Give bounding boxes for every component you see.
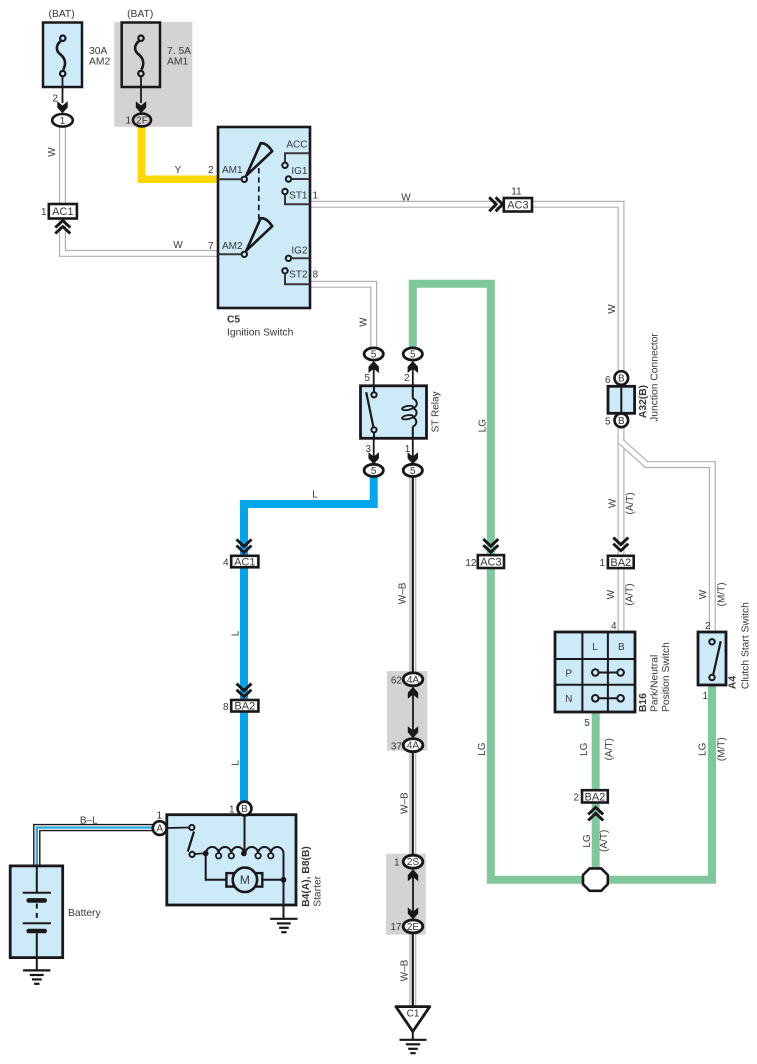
connector 4A pin37 xyxy=(391,726,423,752)
connector AC1 pin4 (blue) xyxy=(223,539,258,568)
wire from fuse AM2 to connector oval 1 xyxy=(52,76,67,113)
svg-text:W–B: W–B xyxy=(400,792,411,814)
starter solenoid coil 1 xyxy=(203,847,244,858)
battery xyxy=(10,866,101,958)
svg-text:4: 4 xyxy=(223,558,229,569)
connector oval 2F pin1 xyxy=(125,114,151,127)
svg-text:W: W xyxy=(608,498,619,508)
svg-text:62: 62 xyxy=(391,676,403,687)
connector 2E pin17 xyxy=(390,907,422,933)
svg-text:B: B xyxy=(618,374,625,385)
svg-text:A32(B): A32(B) xyxy=(638,385,649,418)
arrow down from relay pin3 xyxy=(365,438,378,464)
connector 2S pin1 xyxy=(394,855,423,914)
pin 2 AM1 xyxy=(208,165,247,182)
wire W-B from connector 4A to connector 2S xyxy=(409,745,416,861)
fuse AM1 7.5A xyxy=(122,9,191,87)
connector BA2 pin1 (A/T) xyxy=(599,538,633,569)
svg-text:AC3: AC3 xyxy=(507,200,528,212)
svg-text:LG: LG xyxy=(478,419,489,433)
svg-text:LG: LG xyxy=(698,742,709,756)
svg-text:(BAT): (BAT) xyxy=(49,9,75,20)
arrow down from relay pin1 xyxy=(405,438,418,464)
svg-text:B: B xyxy=(241,804,248,815)
ground below starter xyxy=(270,919,297,932)
svg-text:B: B xyxy=(618,642,625,653)
svg-text:B4(A), B8(B): B4(A), B8(B) xyxy=(301,846,312,907)
svg-text:L: L xyxy=(592,642,598,653)
svg-text:4: 4 xyxy=(611,621,617,632)
ST relay connector oval 5 (pin5) xyxy=(364,348,383,361)
label C5 Ignition Switch xyxy=(227,315,294,339)
svg-text:ST Relay: ST Relay xyxy=(430,391,441,432)
svg-text:2: 2 xyxy=(404,373,410,384)
labels LG (A/T) upper xyxy=(579,738,615,760)
svg-text:W: W xyxy=(47,147,58,157)
svg-text:2: 2 xyxy=(208,165,214,176)
svg-text:5: 5 xyxy=(371,350,377,361)
svg-text:1: 1 xyxy=(156,811,162,822)
svg-text:7: 7 xyxy=(208,241,214,252)
svg-text:AM1: AM1 xyxy=(167,57,188,68)
wire W-B from ST relay pin1 to connector 4A xyxy=(409,470,416,679)
svg-text:W–B: W–B xyxy=(397,582,408,604)
starter motor M xyxy=(226,868,262,892)
wire from fuse AM1 to connector oval 2F xyxy=(136,76,146,113)
svg-text:(A/T): (A/T) xyxy=(624,583,635,605)
svg-text:12: 12 xyxy=(465,558,477,569)
wire Y from fuse AM1 to ignition switch AM1 xyxy=(142,124,219,179)
ST relay connector oval 5 (pin1) xyxy=(403,464,422,477)
svg-text:AM1: AM1 xyxy=(222,165,243,176)
wire LG green from octagon up to park/neutral switch pin5 xyxy=(592,712,600,880)
svg-text:AC3: AC3 xyxy=(480,556,501,568)
svg-text:(A/T): (A/T) xyxy=(625,492,636,514)
svg-text:(M/T): (M/T) xyxy=(717,737,728,761)
svg-text:L: L xyxy=(230,760,241,766)
svg-text:1: 1 xyxy=(599,558,605,569)
svg-text:Starter: Starter xyxy=(312,875,323,906)
svg-text:Clutch Start Switch: Clutch Start Switch xyxy=(741,602,752,689)
svg-text:LG: LG xyxy=(477,742,488,756)
svg-text:(M/T): (M/T) xyxy=(717,582,728,606)
svg-text:ST2: ST2 xyxy=(289,270,308,281)
svg-text:B16: B16 xyxy=(638,693,649,712)
wire W branch from A32(B) to clutch start switch pin2 xyxy=(621,442,712,633)
svg-text:37: 37 xyxy=(391,742,403,753)
svg-text:W–B: W–B xyxy=(400,959,411,981)
wire W-B from connector 2E to ground C1 xyxy=(409,926,416,1007)
svg-text:2: 2 xyxy=(573,793,579,804)
terminal ACC xyxy=(282,140,309,169)
starter internal switch xyxy=(167,825,203,857)
ST relay connector oval 5 (pin2) xyxy=(403,348,422,361)
svg-text:(BAT): (BAT) xyxy=(127,9,153,20)
svg-text:5: 5 xyxy=(364,373,370,384)
labels LG (M/T) xyxy=(698,737,728,761)
park/neutral position switch B16 xyxy=(555,632,672,729)
ground symbol below C1 xyxy=(400,1032,427,1054)
wire L blue from ST relay pin3 to starter terminal B xyxy=(244,470,374,809)
svg-text:6: 6 xyxy=(605,375,611,386)
svg-text:C5: C5 xyxy=(227,315,240,326)
switch blade AM2 xyxy=(246,218,272,250)
svg-text:LG: LG xyxy=(582,834,593,848)
svg-text:Park/Neutral: Park/Neutral xyxy=(650,655,661,712)
ST relay box xyxy=(361,386,442,439)
svg-text:Junction Connector: Junction Connector xyxy=(650,333,661,422)
svg-text:AC1: AC1 xyxy=(52,206,73,218)
ground connector C1 xyxy=(396,1007,430,1032)
connector BA2 pin2 (A/T) xyxy=(573,790,607,820)
svg-text:2E: 2E xyxy=(407,922,420,933)
svg-text:Battery: Battery xyxy=(68,908,101,919)
connector AC1 pin1 xyxy=(41,204,77,234)
svg-text:4A: 4A xyxy=(407,675,420,686)
junction connector A32(B) xyxy=(605,333,661,428)
switch blade AM1 xyxy=(246,143,272,175)
wire LG green from octagon to clutch start switch pin1 xyxy=(595,685,712,880)
label B4(A), B8(B) Starter xyxy=(301,846,323,907)
svg-text:L: L xyxy=(230,630,241,636)
svg-text:5: 5 xyxy=(371,466,377,477)
terminal IG1 xyxy=(286,166,310,182)
svg-text:ACC: ACC xyxy=(286,140,307,151)
svg-text:11: 11 xyxy=(511,186,522,197)
svg-text:2S: 2S xyxy=(407,857,420,868)
svg-text:4A: 4A xyxy=(407,741,420,752)
ignition switch C5 xyxy=(218,127,310,308)
svg-text:BA2: BA2 xyxy=(610,557,631,569)
fuse AM2 30A xyxy=(43,9,110,87)
arrow up into oval pin5 xyxy=(364,361,378,386)
svg-text:1: 1 xyxy=(313,190,319,201)
svg-text:C1: C1 xyxy=(407,1009,420,1020)
svg-text:ST1: ST1 xyxy=(289,191,308,202)
starter terminal A xyxy=(153,811,167,835)
svg-text:P: P xyxy=(565,668,572,679)
labels W (A/T) above BA2 xyxy=(608,492,637,514)
starter terminal B xyxy=(229,802,251,816)
svg-text:IG2: IG2 xyxy=(291,245,308,256)
svg-text:1: 1 xyxy=(41,207,47,218)
ST relay connector oval 5 (pin3) xyxy=(364,464,383,477)
terminal ST2 pin8 xyxy=(282,268,318,284)
clutch start switch A4 xyxy=(698,602,752,702)
svg-text:AM2: AM2 xyxy=(89,57,110,68)
labels W (A/T) xyxy=(606,583,635,632)
svg-text:Position Switch: Position Switch xyxy=(661,642,672,712)
wire W from ignition ST2 to ST relay pin5 xyxy=(310,284,374,354)
svg-text:(A/T): (A/T) xyxy=(599,830,610,852)
labels W (M/T) xyxy=(698,582,728,631)
dashed link between blades xyxy=(258,168,260,221)
svg-text:2F: 2F xyxy=(136,116,148,127)
svg-text:LG: LG xyxy=(579,742,590,756)
svg-text:W: W xyxy=(401,192,411,203)
terminal ST1 pin1 xyxy=(282,189,318,205)
connector oval 1 (AM2 fuse output) xyxy=(52,114,73,127)
svg-text:A: A xyxy=(156,824,163,835)
svg-text:17: 17 xyxy=(390,922,402,933)
svg-text:5: 5 xyxy=(410,350,416,361)
svg-text:30A: 30A xyxy=(89,46,107,57)
svg-text:5: 5 xyxy=(605,417,611,428)
svg-text:1: 1 xyxy=(394,857,400,868)
gray background of connector 2S/2E xyxy=(386,854,426,935)
svg-text:B: B xyxy=(618,416,625,427)
gray background of connector 4A xyxy=(387,671,427,751)
svg-text:W: W xyxy=(606,589,617,599)
svg-text:W: W xyxy=(173,240,183,251)
svg-text:1: 1 xyxy=(125,115,131,126)
svg-text:W: W xyxy=(698,589,709,599)
svg-text:M: M xyxy=(240,873,250,887)
svg-text:5: 5 xyxy=(410,466,416,477)
pin 7 AM2 xyxy=(208,241,247,257)
svg-text:Ignition Switch: Ignition Switch xyxy=(227,328,294,339)
connector AC3 pin12 xyxy=(465,539,504,569)
starter solenoid coil 2 xyxy=(241,847,284,858)
svg-text:Y: Y xyxy=(175,165,182,176)
svg-text:1: 1 xyxy=(60,116,66,127)
svg-text:W: W xyxy=(359,317,370,327)
ground below battery xyxy=(23,958,50,984)
wire LG green from ST relay pin2 via AC3 to octagon junction xyxy=(413,284,596,880)
octagon junction node xyxy=(583,868,608,890)
starter internal wiring xyxy=(206,815,287,919)
svg-text:W: W xyxy=(607,304,618,314)
svg-text:B–L: B–L xyxy=(80,815,98,826)
svg-text:BA2: BA2 xyxy=(585,791,606,803)
labels LG (A/T) lower xyxy=(582,830,610,852)
wire W from junction connector A32(B) down to BA2 and park/neutral switch pin4 xyxy=(618,425,625,632)
svg-text:AM2: AM2 xyxy=(222,241,243,252)
svg-text:1: 1 xyxy=(229,805,235,816)
connector BA2 pin8 (blue) xyxy=(223,684,258,713)
connector 4A pin62 xyxy=(391,673,423,733)
svg-text:(A/T): (A/T) xyxy=(604,738,615,760)
svg-text:BA2: BA2 xyxy=(234,701,255,713)
wire W from ignition ST1 via AC3 to junction connector A32(B) xyxy=(310,204,621,374)
svg-text:8: 8 xyxy=(313,269,319,280)
svg-text:7. 5A: 7. 5A xyxy=(167,46,191,57)
svg-text:N: N xyxy=(565,694,572,705)
svg-text:5: 5 xyxy=(584,718,590,729)
svg-text:3: 3 xyxy=(365,444,371,455)
svg-text:IG1: IG1 xyxy=(291,166,308,177)
terminal IG2 xyxy=(286,245,310,261)
svg-text:1: 1 xyxy=(702,691,708,702)
wire B-L from battery to starter terminal A xyxy=(37,828,153,866)
arrow up into oval pin2 xyxy=(404,361,418,386)
wire W from fuse AM2 connector to AC1 and to ignition AM2 xyxy=(63,124,219,253)
svg-text:AC1: AC1 xyxy=(234,556,255,568)
svg-text:L: L xyxy=(312,490,318,501)
svg-text:8: 8 xyxy=(223,702,229,713)
svg-text:2: 2 xyxy=(705,621,711,632)
svg-text:A4: A4 xyxy=(728,676,739,689)
connector AC3 pin11 xyxy=(489,186,532,211)
starter B4(A),B8(B) xyxy=(167,815,296,905)
gray background of fuse AM1 xyxy=(114,22,192,127)
